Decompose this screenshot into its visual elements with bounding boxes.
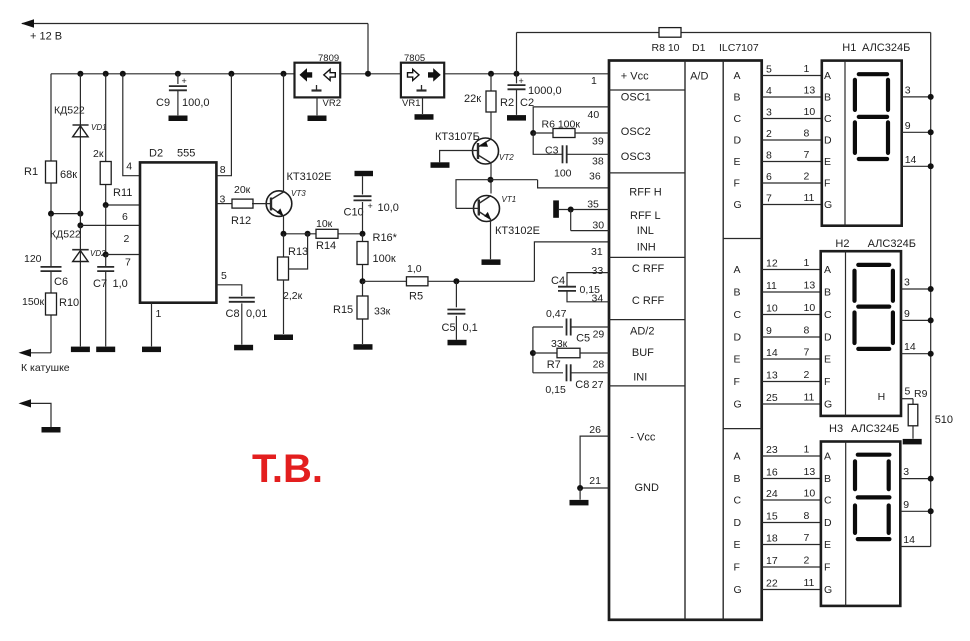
svg-text:11: 11	[804, 577, 815, 589]
svg-text:8: 8	[804, 128, 810, 140]
wire ILC pin29 with C5 0.47	[533, 326, 563, 328]
capacitor C10 10.0 polarized	[362, 176, 364, 194]
svg-text:C5: C5	[442, 322, 456, 334]
svg-text:8: 8	[766, 150, 772, 162]
svg-text:31: 31	[591, 246, 603, 258]
ground below ILC pin21	[570, 500, 589, 506]
svg-text:100к: 100к	[373, 253, 396, 265]
wire second arrow terminal	[24, 403, 51, 427]
svg-text:A: A	[734, 451, 741, 463]
svg-text:+: +	[519, 76, 524, 86]
svg-text:INI: INI	[633, 372, 647, 384]
svg-text:A: A	[824, 70, 831, 82]
svg-text:11: 11	[766, 280, 777, 292]
resistor R14 10k	[316, 229, 338, 238]
svg-text:35: 35	[587, 199, 599, 211]
svg-text:G: G	[824, 199, 832, 211]
svg-text:29: 29	[593, 329, 605, 341]
display H3 ALS324B box	[821, 442, 900, 606]
svg-text:F: F	[824, 376, 830, 388]
svg-text:8: 8	[804, 510, 810, 522]
wire pin36 connection	[456, 180, 491, 209]
svg-text:R14: R14	[316, 240, 336, 252]
svg-text:R13: R13	[288, 246, 308, 258]
ground below C8	[234, 345, 253, 351]
svg-text:RFF L: RFF L	[630, 210, 661, 222]
svg-text:3: 3	[220, 194, 226, 206]
svg-text:+ 12 В: + 12 В	[30, 31, 62, 43]
svg-text:VR2: VR2	[323, 98, 341, 109]
svg-text:40: 40	[588, 109, 600, 121]
resistor R9 510	[912, 399, 914, 405]
svg-text:10: 10	[804, 488, 816, 500]
wire top line to displays anode rail	[517, 32, 660, 34]
svg-text:14: 14	[903, 534, 915, 546]
svg-text:5: 5	[221, 270, 227, 282]
svg-text:B: B	[824, 473, 831, 485]
ground below R13	[274, 335, 293, 341]
wire display H1 common pin 14 to rail	[902, 165, 931, 167]
svg-text:9: 9	[905, 120, 911, 132]
ground below C5	[448, 340, 467, 346]
svg-text:АЛС324Б: АЛС324Б	[851, 423, 899, 435]
wire to coil with arrow	[24, 352, 51, 354]
svg-text:F: F	[734, 178, 740, 190]
svg-text:INL: INL	[637, 225, 654, 237]
svg-text:25: 25	[766, 392, 778, 404]
svg-text:КТ3102Е: КТ3102Е	[495, 225, 540, 237]
svg-text:КТ3107Б: КТ3107Б	[435, 131, 480, 143]
svg-text:D: D	[824, 332, 832, 344]
svg-text:C9: C9	[156, 97, 170, 109]
svg-text:R7: R7	[547, 359, 561, 371]
svg-text:3: 3	[904, 277, 910, 289]
svg-text:C: C	[734, 309, 742, 321]
display H3 seven-segment digit	[858, 453, 890, 457]
svg-text:1000,0: 1000,0	[528, 85, 562, 97]
wire ILC7107 segment B digit1 to display H1	[762, 96, 822, 98]
svg-text:10: 10	[804, 302, 816, 314]
wire ILC7107 segment G digit2 to display H2	[762, 403, 821, 405]
svg-text:RFF H: RFF H	[629, 187, 661, 199]
resistor R1 68k	[50, 74, 52, 214]
svg-text:2: 2	[804, 171, 810, 183]
svg-text:Н2: Н2	[835, 238, 849, 250]
svg-text:2: 2	[766, 128, 772, 140]
wire display H1 common pin 9 to rail	[902, 131, 931, 133]
ground below R9	[903, 439, 922, 445]
wire ILC7107 segment B digit3 to display H3	[762, 478, 821, 480]
svg-text:2: 2	[124, 233, 130, 245]
wire R11 column down to pin7 line	[105, 205, 107, 255]
svg-text:21: 21	[589, 475, 601, 487]
svg-text:7805: 7805	[404, 53, 425, 64]
svg-text:1: 1	[591, 75, 597, 87]
svg-text:1: 1	[156, 308, 162, 320]
svg-text:АЛС324Б: АЛС324Б	[862, 42, 910, 54]
svg-text:B: B	[734, 287, 741, 299]
wire VT3 emitter node	[283, 216, 285, 234]
svg-text:C8: C8	[575, 379, 589, 391]
svg-text:C10: C10	[344, 207, 364, 219]
wire ILC pin30	[570, 210, 572, 231]
wire +12V top line with arrow	[22, 23, 368, 25]
svg-text:A: A	[824, 451, 831, 463]
svg-text:E: E	[824, 539, 831, 551]
wire 555 pin3 to R12	[216, 203, 232, 205]
wire ILC7107 segment A digit2 to display H2	[762, 269, 821, 271]
wire display H3 common pin 14 to rail	[900, 546, 930, 548]
ground below 555 pin1	[142, 347, 161, 353]
wire ILC pin26 -Vcc	[580, 436, 609, 488]
svg-text:22: 22	[766, 578, 778, 590]
svg-text:18: 18	[766, 533, 778, 545]
svg-text:A: A	[734, 264, 741, 276]
svg-text:VD1: VD1	[91, 123, 107, 132]
svg-text:10,0: 10,0	[378, 202, 399, 214]
capacitor C8 0.01	[229, 297, 255, 299]
svg-text:Т.В.: Т.В.	[252, 447, 323, 491]
svg-text:0,47: 0,47	[546, 308, 567, 320]
svg-text:AD/2: AD/2	[630, 326, 654, 338]
wire ILC pin35	[559, 209, 609, 211]
resistor R11 2k	[105, 74, 107, 205]
wire ILC7107 segment F digit1 to display H1	[762, 182, 822, 184]
svg-text:C RFF: C RFF	[632, 295, 665, 307]
svg-text:C: C	[824, 309, 832, 321]
wire ILC pin40	[533, 107, 609, 133]
svg-text:R10: R10	[59, 297, 79, 309]
svg-text:26: 26	[589, 424, 601, 436]
svg-text:2: 2	[804, 369, 810, 381]
wire emitter junction line	[284, 233, 306, 235]
svg-text:2к: 2к	[93, 148, 104, 160]
display H2 ALS324B box	[821, 251, 901, 416]
svg-text:38: 38	[592, 156, 604, 168]
svg-text:C RFF: C RFF	[632, 263, 665, 275]
svg-text:D: D	[824, 517, 832, 529]
wire VT2 base to ground	[440, 151, 478, 163]
svg-text:Н: Н	[878, 391, 886, 403]
diode VD1 KD522	[79, 74, 81, 226]
svg-text:C: C	[824, 113, 832, 125]
svg-text:33к: 33к	[551, 338, 568, 350]
svg-text:A: A	[734, 70, 741, 82]
wire display H3 common pin 3 to rail	[900, 478, 930, 480]
svg-text:13: 13	[766, 370, 778, 382]
wire ILC7107 segment E digit3 to display H3	[762, 544, 821, 546]
wire bus to 555 pin4	[123, 74, 140, 176]
ground below C9	[169, 116, 188, 122]
svg-text:D: D	[734, 135, 742, 147]
wire VR1 ground	[422, 97, 424, 114]
capacitor C4 0.15	[558, 286, 576, 288]
svg-text:F: F	[734, 376, 740, 388]
svg-text:2: 2	[804, 555, 810, 567]
svg-text:3: 3	[905, 84, 911, 96]
svg-text:B: B	[734, 92, 741, 104]
diode VD2 KD522	[77, 222, 83, 228]
ground below VT1	[482, 259, 501, 265]
svg-text:F: F	[824, 178, 830, 190]
svg-text:R15: R15	[333, 304, 353, 316]
svg-text:33: 33	[592, 265, 604, 277]
svg-text:14: 14	[905, 154, 917, 166]
svg-text:КД522: КД522	[50, 229, 81, 241]
svg-text:8: 8	[804, 325, 810, 337]
svg-text:7: 7	[804, 532, 810, 544]
svg-text:АЛС324Б: АЛС324Б	[868, 238, 916, 250]
svg-text:22к: 22к	[464, 93, 481, 105]
ground bar above C10	[355, 171, 374, 176]
display H1 ALS324B box	[822, 61, 902, 226]
wire ILC7107 segment A digit3 to display H3	[762, 455, 821, 457]
svg-text:R11: R11	[113, 187, 132, 199]
svg-text:R12: R12	[231, 215, 251, 227]
svg-text:VT2: VT2	[499, 153, 514, 162]
svg-text:34: 34	[592, 293, 604, 305]
svg-text:R1: R1	[24, 166, 38, 178]
svg-text:C8: C8	[226, 308, 240, 320]
wire ILC7107 segment F digit3 to display H3	[762, 566, 821, 568]
ground below VD2	[71, 347, 90, 353]
wire H2 pin5 to R9	[901, 398, 913, 400]
svg-text:39: 39	[592, 136, 604, 148]
svg-text:F: F	[824, 562, 830, 574]
wire 555 pin5 to C8	[216, 285, 241, 296]
svg-text:1,0: 1,0	[113, 278, 128, 290]
svg-text:8: 8	[220, 164, 226, 176]
svg-text:20к: 20к	[234, 184, 251, 196]
svg-text:0,15: 0,15	[545, 384, 566, 396]
resistor R16* 100k	[362, 234, 364, 281]
svg-text:100: 100	[554, 168, 572, 180]
svg-text:D2: D2	[149, 148, 163, 160]
resistor R10 150k	[50, 272, 52, 353]
wire ILC7107 segment B digit2 to display H2	[762, 291, 821, 293]
svg-text:R6 100к: R6 100к	[542, 119, 581, 131]
wire ILC7107 segment G digit3 to display H3	[762, 589, 821, 591]
wire ILC7107 segment C digit3 to display H3	[762, 499, 821, 501]
capacitor C5 0.1	[455, 281, 457, 307]
wire ILC7107 segment E digit1 to display H1	[762, 161, 822, 163]
display H2 seven-segment digit	[858, 263, 889, 267]
svg-text:INH: INH	[637, 241, 656, 253]
display H1 seven-segment digit	[859, 72, 887, 76]
svg-text:C3: C3	[545, 145, 559, 157]
svg-text:К катушке: К катушке	[21, 362, 70, 374]
resistor R5 1.0	[406, 277, 428, 286]
wire 555 pin1 to ground	[151, 303, 153, 347]
svg-text:BUF: BUF	[632, 347, 654, 359]
wire VT3 collector to bus	[283, 74, 285, 192]
svg-text:C: C	[734, 495, 742, 507]
wire VT1 emitter to ground	[490, 220, 492, 260]
wire display H2 common pin 14 to rail	[901, 353, 931, 355]
svg-text:3: 3	[766, 107, 772, 119]
ground below C2	[507, 115, 526, 121]
svg-text:0,01: 0,01	[246, 308, 267, 320]
svg-text:0,1: 0,1	[463, 322, 478, 334]
svg-text:7: 7	[804, 347, 810, 359]
svg-text:E: E	[734, 156, 741, 168]
svg-text:B: B	[734, 473, 741, 485]
svg-text:28: 28	[593, 359, 605, 371]
svg-text:OSC3: OSC3	[621, 151, 651, 163]
svg-text:7: 7	[766, 193, 772, 205]
wire display H2 common pin 3 to rail	[901, 288, 931, 290]
svg-text:G: G	[824, 584, 832, 596]
capacitor C2 1000.0 polarized	[516, 74, 518, 84]
svg-text:24: 24	[766, 488, 778, 500]
svg-text:11: 11	[804, 192, 815, 204]
wire VT1 base loop	[456, 207, 479, 209]
svg-text:6: 6	[766, 171, 772, 183]
resistor R6 100k	[530, 130, 536, 136]
svg-text:2,2к: 2,2к	[283, 290, 303, 302]
svg-text:9: 9	[903, 499, 909, 511]
svg-text:R2: R2	[500, 97, 514, 109]
svg-text:- Vcc: - Vcc	[630, 432, 656, 444]
svg-text:10: 10	[804, 106, 816, 118]
svg-text:E: E	[824, 354, 831, 366]
svg-text:7: 7	[125, 257, 131, 269]
svg-text:R16*: R16*	[373, 232, 398, 244]
wire C2 node up to R8 line	[516, 33, 518, 74]
wire ILC7107 segment F digit2 to display H2	[762, 381, 821, 383]
wire node R1 bottom to diode column	[51, 213, 80, 215]
svg-text:14: 14	[766, 347, 778, 359]
svg-text:+ Vcc: + Vcc	[621, 71, 649, 83]
wire 555 pin7 line	[106, 254, 140, 256]
svg-text:7: 7	[804, 149, 810, 161]
ground below second arrow	[42, 427, 61, 433]
junction dots on bus	[77, 71, 83, 77]
svg-text:5: 5	[905, 385, 911, 397]
capacitor C7 1.0	[105, 255, 107, 267]
svg-text:B: B	[824, 287, 831, 299]
svg-text:4: 4	[126, 161, 132, 173]
svg-text:15: 15	[766, 511, 778, 523]
svg-text:A: A	[824, 264, 831, 276]
wire R5 node to ILC pin31	[534, 242, 609, 281]
svg-text:D1: D1	[692, 42, 706, 54]
svg-text:КТ3102Е: КТ3102Е	[287, 171, 332, 183]
svg-text:VR1: VR1	[402, 98, 420, 109]
wire R2 bottom to VT2 emitter	[490, 112, 492, 139]
svg-text:14: 14	[904, 341, 916, 353]
svg-text:GND: GND	[635, 482, 660, 494]
ground below R15	[354, 344, 373, 350]
wire ILC7107 segment G digit1 to display H1	[762, 204, 822, 206]
svg-text:13: 13	[804, 280, 816, 292]
svg-text:13: 13	[804, 85, 816, 97]
svg-text:КД522: КД522	[54, 105, 85, 117]
capacitor C9 100.0 polarized	[177, 74, 179, 84]
svg-text:E: E	[734, 539, 741, 551]
svg-text:C2: C2	[520, 97, 534, 109]
svg-text:F: F	[734, 562, 740, 574]
svg-text:1: 1	[804, 63, 810, 75]
svg-text:555: 555	[177, 148, 195, 160]
ground below C7	[96, 347, 115, 353]
svg-text:510: 510	[935, 414, 953, 426]
svg-text:30: 30	[592, 220, 604, 232]
wire node to R5	[363, 280, 407, 282]
svg-text:+: +	[368, 201, 373, 211]
wire ILC pin21 GND	[580, 487, 609, 489]
wire ILC pin33	[567, 273, 609, 287]
transistor VT1 KT3102E npn	[474, 196, 500, 222]
resistor R8 10	[659, 28, 681, 38]
svg-text:ILC7107: ILC7107	[719, 42, 759, 54]
svg-text:C: C	[734, 113, 742, 125]
svg-text:G: G	[734, 199, 742, 211]
IC D2 555 timer	[140, 162, 216, 302]
svg-text:16: 16	[766, 467, 778, 479]
svg-text:5: 5	[766, 64, 772, 76]
wire 555 pin6 line	[106, 204, 140, 206]
svg-text:VT1: VT1	[502, 195, 517, 204]
svg-text:+: +	[182, 76, 187, 86]
wire ILC7107 segment A digit1 to display H1	[762, 75, 822, 77]
resistor R13 2.2k trimmer	[283, 234, 285, 257]
wire ILC pin27 with C8 0.15	[533, 372, 563, 374]
svg-text:C4: C4	[551, 275, 565, 287]
ground below VR1	[415, 114, 434, 120]
svg-text:R9: R9	[914, 388, 928, 400]
svg-text:6: 6	[122, 211, 128, 223]
wire ILC7107 segment E digit2 to display H2	[762, 358, 821, 360]
svg-text:120: 120	[24, 253, 42, 265]
svg-text:A/D: A/D	[690, 71, 708, 83]
wire ILC7107 segment D digit1 to display H1	[762, 139, 822, 141]
ground below VT2 base	[431, 162, 450, 168]
svg-text:27: 27	[592, 379, 604, 391]
svg-text:OSC1: OSC1	[621, 92, 651, 104]
svg-text:VT3: VT3	[291, 189, 306, 198]
resistor R15 33k	[362, 281, 364, 344]
svg-text:C6: C6	[54, 276, 68, 288]
svg-text:33к: 33к	[374, 306, 391, 318]
wire VR2 ground	[316, 97, 318, 115]
IC D1 ILC7107 A/D converter	[609, 61, 762, 620]
wire ILC7107 segment C digit1 to display H1	[762, 118, 822, 120]
wire left rail pins 29-27	[532, 327, 534, 373]
wire display H2 common pin 9 to rail	[901, 319, 931, 321]
voltage regulator VR2 7809	[295, 63, 341, 98]
ILC7107 internal dividers	[609, 89, 685, 91]
svg-text:150к: 150к	[22, 296, 45, 308]
wire display anode rail	[930, 33, 932, 547]
reference electrode bar pin35	[553, 200, 559, 217]
svg-text:17: 17	[766, 555, 778, 567]
svg-text:10: 10	[766, 303, 778, 315]
svg-text:B: B	[824, 92, 831, 104]
svg-text:G: G	[824, 399, 832, 411]
resistor R2 22k	[490, 74, 492, 91]
svg-text:7809: 7809	[318, 53, 339, 64]
svg-text:Н1: Н1	[842, 42, 856, 54]
svg-text:C5: C5	[576, 333, 590, 345]
svg-text:Н3: Н3	[829, 423, 843, 435]
svg-text:G: G	[734, 399, 742, 411]
svg-text:9: 9	[904, 308, 910, 320]
svg-text:OSC2: OSC2	[621, 126, 651, 138]
svg-text:100,0: 100,0	[182, 97, 210, 109]
voltage regulator VR1 7805	[401, 63, 444, 98]
svg-text:1: 1	[804, 257, 810, 269]
